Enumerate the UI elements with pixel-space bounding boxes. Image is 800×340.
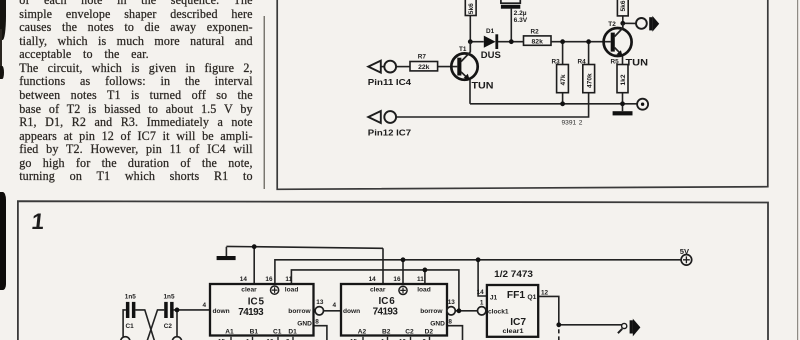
wire: T2 emitter to R5 [622, 56, 624, 65]
svg-text:A2: A2 [358, 329, 367, 336]
output curl (bottom figure) [618, 323, 627, 333]
page right edge line [797, 0, 799, 340]
svg-text:6.3V: 6.3V [514, 17, 528, 24]
svg-text:74193: 74193 [373, 307, 399, 318]
terminal below C2 [172, 337, 181, 340]
svg-text:C2: C2 [405, 329, 414, 336]
wire: IC6 pin11 riser [424, 270, 426, 284]
svg-text:13: 13 [448, 299, 456, 306]
svg-text:5k6: 5k6 [468, 3, 475, 14]
svg-text:IC7: IC7 [510, 317, 526, 328]
resistor R5 1k2 [611, 58, 629, 92]
svg-text:470k: 470k [586, 73, 593, 88]
wire: C2 right lead and drop to terminal [174, 310, 177, 337]
figure 2 frame box [277, 0, 768, 189]
IC6 power marker [399, 286, 407, 294]
node: IC6 pin16 on 5V rail [401, 257, 406, 262]
svg-text:8: 8 [315, 318, 319, 325]
svg-text:Pin12 IC7: Pin12 IC7 [368, 127, 412, 137]
wire: D1 cathode to R2 [498, 41, 524, 43]
IC6 74193 box [333, 276, 456, 336]
IC5 bottom pin numbers (clipped) [218, 339, 290, 340]
svg-text:down: down [343, 308, 360, 315]
FF1 7473 box [477, 269, 549, 337]
svg-text:FF1: FF1 [507, 290, 525, 301]
svg-text:16: 16 [265, 276, 273, 283]
capacitor C2 1n5 [164, 293, 175, 329]
wire: 5k6b lead down to T2 collector node [622, 16, 624, 23]
node: FF1 J riser on 5V rail [476, 257, 481, 262]
resistor R2 82k [524, 28, 552, 45]
svg-text:13: 13 [316, 299, 324, 306]
resistor R7 22k [410, 54, 438, 71]
svg-text:47k: 47k [560, 74, 567, 85]
resistor 5k6 (right, cut at top) [617, 0, 628, 16]
svg-text:1n5: 1n5 [164, 293, 175, 300]
wire: ground rail [470, 103, 637, 105]
node: C2 junction [175, 308, 180, 313]
terminal below C1 [121, 337, 130, 340]
output arrow (top figure) [649, 16, 659, 32]
svg-text:C1: C1 [126, 323, 135, 330]
node: R3 top junction [560, 39, 565, 44]
wire: C2 to IC5 pin4 [177, 309, 210, 311]
node: R5 bottom junction [620, 101, 625, 106]
svg-text:B1: B1 [250, 329, 259, 336]
svg-text:J1: J1 [490, 294, 498, 301]
svg-text:clear: clear [241, 286, 257, 293]
IC5 power marker [271, 286, 279, 294]
wire: R4 top lead [588, 42, 590, 65]
ground symbol (bottom figure) [217, 256, 236, 260]
IC6 bottom pin stubs [363, 337, 430, 340]
wire: T2 collector node to output terminal [623, 22, 636, 24]
wire: FF1 J riser from 5V [478, 260, 487, 296]
svg-text:R7: R7 [418, 54, 427, 61]
svg-text:2: 2 [579, 120, 583, 127]
svg-text:1k2: 1k2 [620, 74, 627, 85]
wire: load rail [291, 270, 459, 311]
svg-text:14: 14 [477, 289, 485, 296]
svg-text:A1: A1 [225, 329, 234, 336]
capacitor C 2.2u (electrolytic, cut at top) [501, 0, 528, 24]
node: R3 bottom junction [560, 101, 565, 106]
left page-edge smudges [0, 0, 6, 40]
resistor R3 47k [552, 59, 569, 93]
svg-text:1: 1 [30, 209, 45, 234]
node: IC5 clear junction [252, 244, 257, 249]
svg-text:down: down [213, 308, 230, 315]
0V terminal (top figure) [637, 99, 648, 110]
svg-text:C1: C1 [273, 329, 282, 336]
wire: R5 bottom lead [622, 93, 624, 104]
svg-text:TUN: TUN [626, 57, 649, 67]
resistor R4 470k [578, 59, 595, 93]
svg-text:4: 4 [203, 302, 207, 309]
wire: IC6 clear riser [382, 248, 384, 284]
svg-text:1: 1 [480, 300, 484, 307]
wire: IC6 pin16 riser [402, 260, 404, 284]
svg-text:16: 16 [393, 276, 401, 283]
IC6 borrow circle pin13 [447, 307, 455, 315]
svg-text:D2: D2 [425, 329, 434, 336]
svg-text:R2: R2 [531, 28, 540, 35]
svg-text:borrow: borrow [288, 308, 311, 315]
svg-text:DUS: DUS [481, 50, 501, 60]
wire: R7 to T1 base [438, 66, 458, 68]
input terminal Pin11 IC4 [368, 61, 412, 88]
wire: C1 right diagonal [135, 310, 154, 340]
IC5 borrow circle pin13 [315, 307, 323, 315]
svg-text:D1: D1 [486, 28, 495, 35]
svg-text:GND: GND [297, 321, 312, 328]
wire: FF1 Q1 output run [538, 296, 622, 324]
svg-text:load: load [285, 286, 299, 293]
resistor 5k6 (left, cut at top) [465, 0, 476, 16]
output terminal circle (top figure) [636, 18, 647, 29]
svg-text:4: 4 [333, 302, 337, 309]
svg-text:12: 12 [541, 290, 549, 297]
svg-text:load: load [417, 286, 431, 293]
figure 1 frame box [18, 201, 768, 340]
svg-text:C2: C2 [164, 323, 173, 330]
column rule [263, 16, 265, 189]
wire: IC5 GND pin8 [314, 326, 327, 340]
wire: 5V rail [275, 260, 681, 284]
wire: IC5 borrow to IC6 down [324, 310, 342, 312]
wire: top node rail T1 collector to D1 [470, 41, 484, 43]
svg-text:T1: T1 [459, 46, 467, 53]
FF1 clock circle pin1 [478, 307, 486, 315]
wire: ground stub [225, 247, 227, 256]
transistor T1 TUN [451, 42, 494, 91]
svg-text:74193: 74193 [238, 307, 264, 318]
svg-text:GND: GND [430, 321, 445, 328]
node: IC6 pin11 on load rail [423, 268, 428, 273]
node: Q1 output junction [556, 322, 561, 327]
wire: C2 left diagonal [147, 310, 164, 340]
svg-text:14: 14 [369, 276, 377, 283]
svg-text:D1: D1 [288, 329, 297, 336]
svg-text:B2: B2 [382, 329, 391, 336]
svg-text:14: 14 [240, 276, 248, 283]
IC5 74193 box [203, 276, 324, 336]
wire: IC6 borrow to FF1 clock [455, 310, 477, 312]
wire: ground stub below R5 [622, 104, 624, 111]
node: capacitor junction [509, 39, 514, 44]
svg-text:TUN: TUN [472, 81, 494, 91]
svg-text:clear: clear [370, 286, 386, 293]
svg-text:1n5: 1n5 [125, 293, 136, 300]
wire: IC6 GND pin8 [447, 326, 462, 340]
svg-text:82k: 82k [532, 38, 544, 45]
node: borrow/clock junction [457, 308, 462, 313]
svg-text:clear1: clear1 [503, 328, 524, 335]
svg-text:5k6: 5k6 [620, 0, 627, 11]
output arrow (bottom figure) [630, 319, 641, 337]
wire: 5k6a lead down to node [469, 16, 471, 42]
svg-text:9391: 9391 [562, 120, 577, 127]
wire: capacitor C lead down to node [510, 9, 512, 42]
svg-text:Pin11 IC4: Pin11 IC4 [368, 77, 412, 87]
svg-text:8: 8 [448, 318, 452, 325]
svg-text:22k: 22k [418, 64, 430, 71]
svg-text:Q1: Q1 [527, 294, 536, 301]
svg-text:T2: T2 [608, 21, 616, 28]
node: T2 collector junction [620, 21, 625, 26]
capacitor C1 1n5 [125, 293, 136, 329]
svg-text:borrow: borrow [420, 308, 443, 315]
5V supply terminal [680, 247, 692, 265]
wire: IC5 clear riser [253, 247, 255, 284]
wire: clear rail [226, 246, 383, 248]
node: R4 top junction [586, 39, 591, 44]
wire: Pin11 input to R7 [381, 66, 384, 68]
input terminal Pin12 IC7 [368, 111, 412, 137]
IC5 bottom pin stubs [231, 337, 293, 340]
wire: C1 left lead to terminal [123, 310, 126, 337]
ground symbol (top figure) [613, 111, 633, 115]
wire: R2 to T2 base [551, 41, 611, 43]
svg-text:clock1: clock1 [488, 308, 509, 315]
svg-text:11: 11 [417, 276, 424, 283]
IC6 bottom pin numbers (clipped) [350, 339, 427, 340]
node: T1 collector junction [468, 39, 473, 44]
wire: Pin12 input long run to R4 bottom [396, 93, 588, 117]
wire: R3 leads [562, 42, 564, 104]
svg-text:1/2 7473: 1/2 7473 [494, 269, 533, 279]
diode D1 DUS [481, 28, 501, 60]
transistor T2 TUN [604, 21, 649, 68]
svg-text:11: 11 [285, 276, 292, 283]
wire: T1 emitter down [469, 80, 471, 104]
wire: dashed continuation below Q1 node [558, 329, 560, 340]
